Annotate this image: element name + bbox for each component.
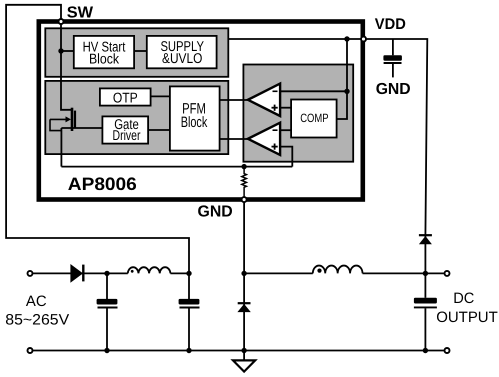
svg-text:DC: DC xyxy=(453,290,474,307)
wire current sense feedback line xyxy=(61,166,292,168)
svg-text:GND: GND xyxy=(198,204,233,221)
wire gate drive line xyxy=(61,127,103,129)
wire MOSFET source drop xyxy=(60,128,62,167)
wire OTP to PFM Block xyxy=(150,95,171,97)
node comparator supply junction xyxy=(344,89,349,94)
svg-text:SW: SW xyxy=(67,5,94,22)
resistor R1 current sense xyxy=(242,167,247,200)
capacitor C2 xyxy=(188,273,190,299)
transistor Q1 power MOSFET xyxy=(50,108,75,131)
startup section box xyxy=(45,28,228,77)
node sense resistor junction xyxy=(241,164,246,169)
svg-text:COMP: COMP xyxy=(300,111,328,125)
terminal DC minus xyxy=(445,348,450,353)
node N4 output node xyxy=(423,271,428,276)
wire output line to L2 xyxy=(244,272,313,274)
capacitor C1 input xyxy=(106,273,108,299)
inductor L2 output xyxy=(313,266,363,274)
node C1 ground xyxy=(104,348,109,353)
wire PFM to comparator U1 output xyxy=(219,99,249,101)
ground symbol xyxy=(243,351,245,361)
svg-text:&UVLO: &UVLO xyxy=(162,51,202,67)
wire U2 plus input to sense line xyxy=(280,147,292,167)
op-amp U1 xyxy=(248,84,280,116)
block OTP xyxy=(100,88,151,105)
capacitor C3 output xyxy=(424,273,426,297)
block Gate Driver xyxy=(102,116,148,143)
node ground symbol junction xyxy=(241,348,246,353)
wire L1 to SW node xyxy=(170,272,189,274)
svg-text:GND: GND xyxy=(376,81,411,98)
wire COMP output to node xyxy=(337,91,348,119)
wire U1 plus input to COMP xyxy=(280,107,292,109)
wire ground rail bottom xyxy=(30,350,447,352)
node VDD junction xyxy=(344,36,349,41)
node SW branch junction xyxy=(58,48,63,53)
svg-text:85~265V: 85~265V xyxy=(5,312,69,329)
op-amp U2 xyxy=(248,123,280,155)
wire VDD drop to comparator supply xyxy=(346,39,348,91)
wire comparator U1 minus input xyxy=(280,90,347,92)
wire GND net vertical xyxy=(243,200,245,351)
wire SW external loop to transformer node xyxy=(6,5,189,274)
terminal AC live xyxy=(28,271,33,276)
diode D3 freewheel xyxy=(238,302,251,304)
wire SW branch to HV Start Block xyxy=(61,50,74,52)
block PFM xyxy=(170,86,220,150)
svg-text:Block: Block xyxy=(89,52,120,68)
wire U2 minus input to COMP xyxy=(280,129,292,131)
block COMP xyxy=(291,100,337,138)
IC AP8006 outline xyxy=(39,22,363,200)
wire Gate Driver to PFM Block xyxy=(148,129,171,131)
wire SW net vertical to MOSFET drain xyxy=(61,22,72,110)
node C2 ground xyxy=(186,348,191,353)
wire HV Start Block to SUPPLY block xyxy=(134,50,147,52)
terminal AC neutral xyxy=(28,348,33,353)
capacitor C4 VDD bypass xyxy=(392,39,394,55)
comparator section box xyxy=(243,65,353,162)
wire AC line top left xyxy=(30,272,128,274)
node N2 SW transformer node xyxy=(186,271,191,276)
node N3 switch node xyxy=(241,271,246,276)
block HV Start xyxy=(74,36,134,68)
terminal DC plus xyxy=(445,271,450,276)
driver section box xyxy=(45,81,228,154)
pin GND xyxy=(242,197,247,202)
pin SW xyxy=(59,19,64,24)
wire L2 to output terminal xyxy=(363,272,448,274)
svg-text:VDD: VDD xyxy=(375,16,406,33)
diode D1 input rectifier xyxy=(70,264,83,283)
wire VDD rail from supply block to external diode xyxy=(229,39,427,273)
svg-text:AP8006: AP8006 xyxy=(68,174,137,194)
block SUPPLY UVLO xyxy=(147,36,217,68)
inductor L1 input filter xyxy=(128,267,171,273)
svg-text:OUTPUT: OUTPUT xyxy=(436,309,498,326)
node C3 ground xyxy=(423,348,428,353)
svg-text:AC: AC xyxy=(26,293,47,310)
diode D2 output rectifier xyxy=(419,234,432,236)
pin VDD xyxy=(361,37,366,42)
svg-text:Driver: Driver xyxy=(113,128,141,144)
svg-text:OTP: OTP xyxy=(113,90,138,106)
svg-text:Block: Block xyxy=(181,114,208,131)
node N1 rectifier output xyxy=(104,271,109,276)
wire PFM to comparator U2 output xyxy=(219,138,249,140)
